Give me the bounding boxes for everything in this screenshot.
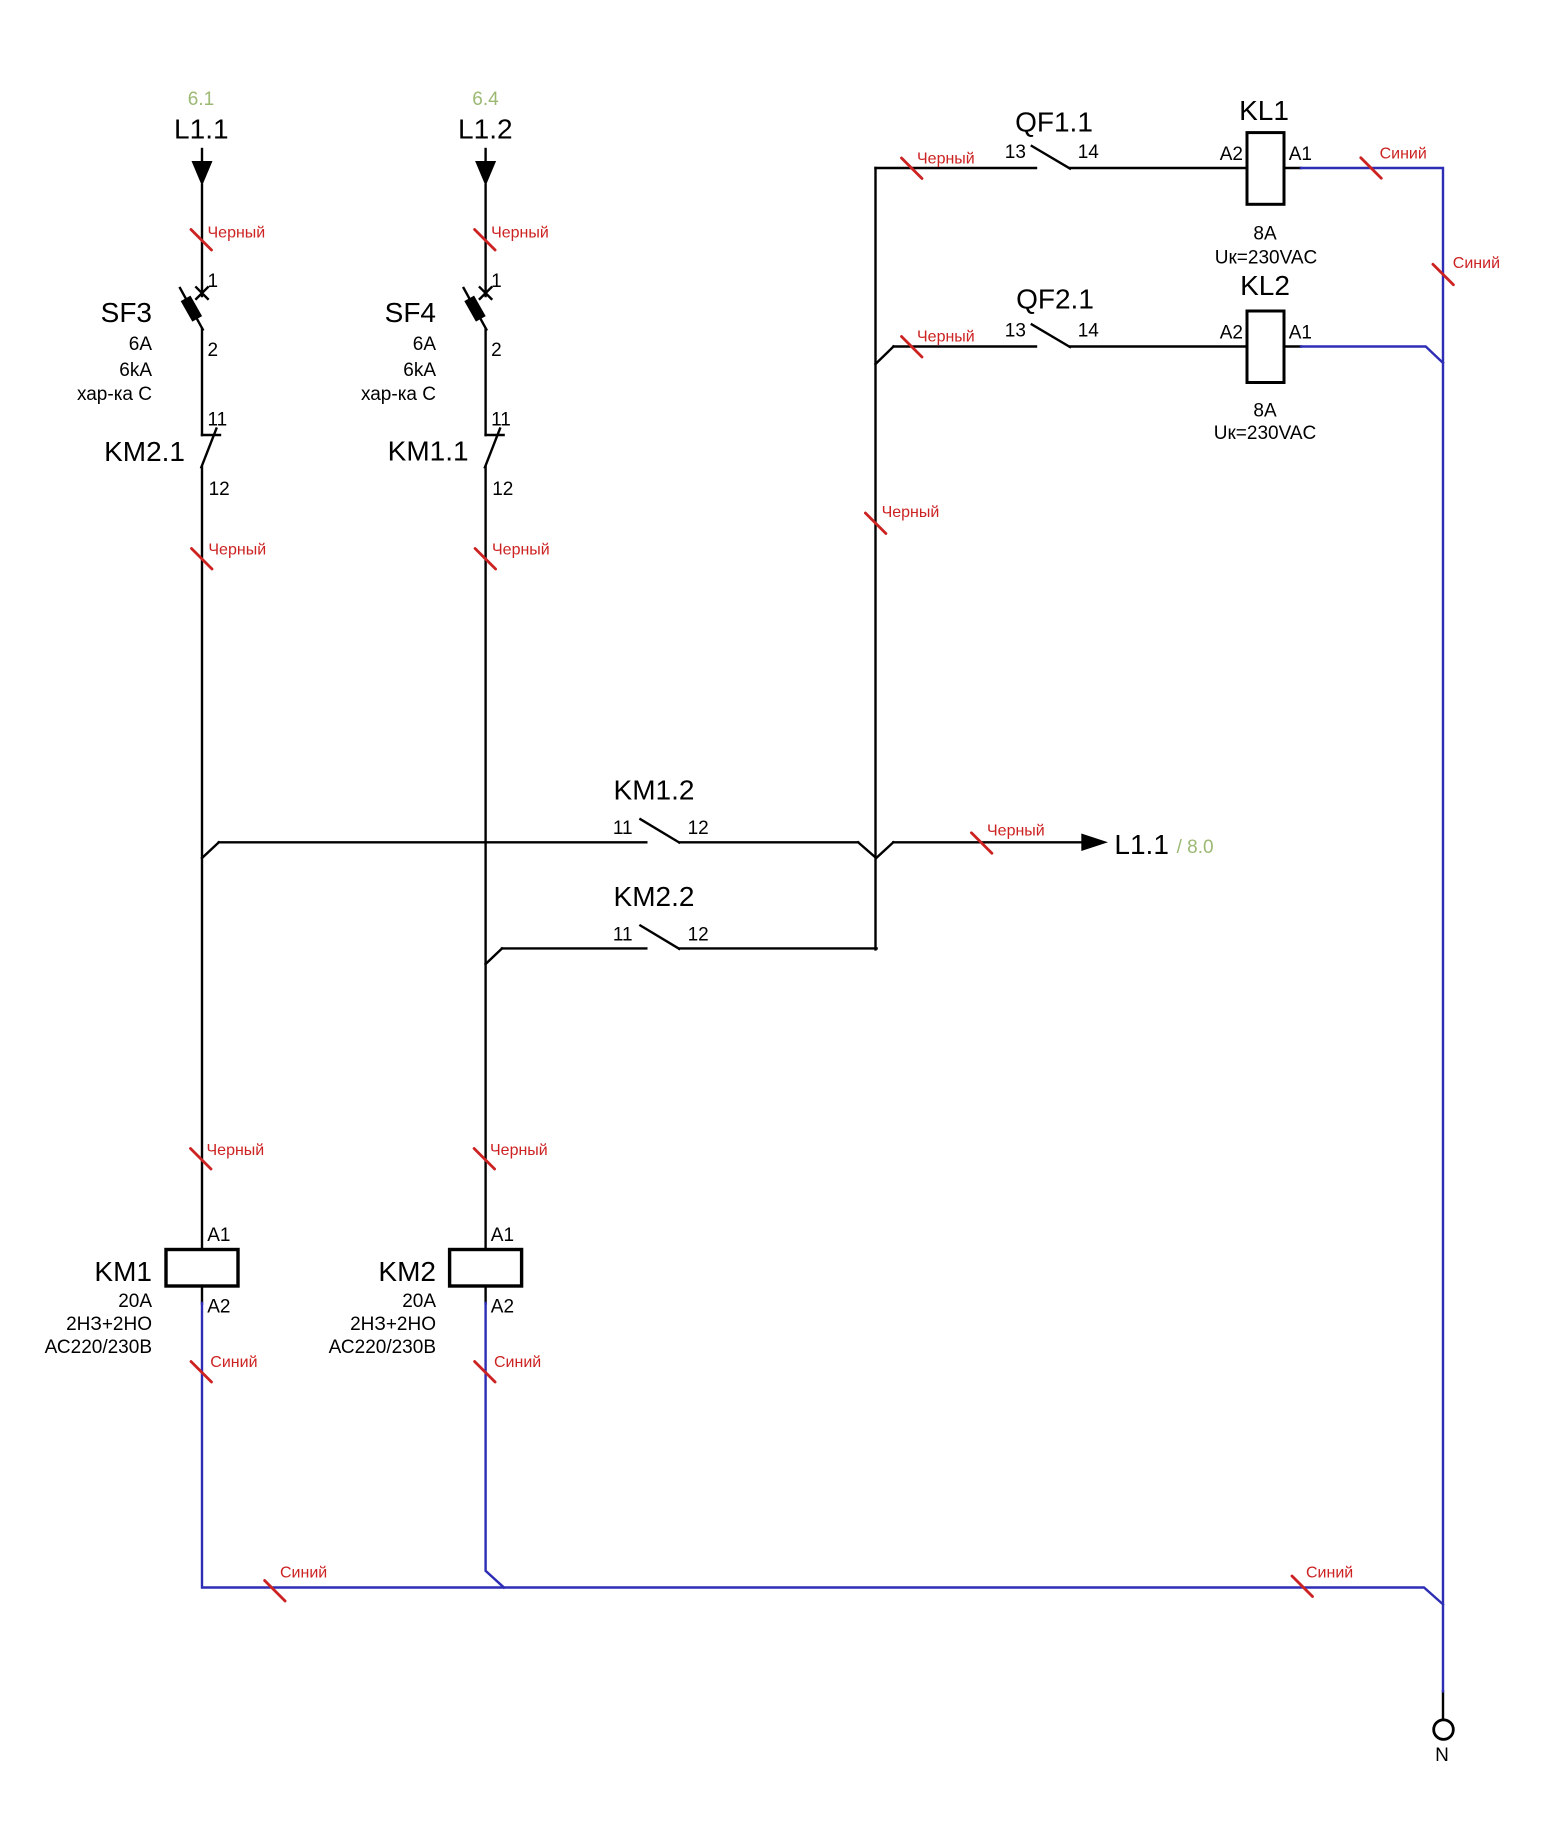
svg-text:2НЗ+2НО: 2НЗ+2НО [66, 1314, 152, 1335]
svg-text:KM1: KM1 [94, 1256, 152, 1287]
svg-text:6kA: 6kA [403, 360, 436, 381]
svg-text:Черный: Черный [917, 151, 975, 168]
svg-text:KM2.2: KM2.2 [614, 881, 695, 912]
svg-text:Uк=230VAC: Uк=230VAC [1215, 248, 1318, 269]
svg-text:11: 11 [208, 410, 228, 431]
svg-text:KL1: KL1 [1239, 95, 1289, 126]
svg-text:11: 11 [613, 818, 633, 839]
svg-text:L1.1: L1.1 [1114, 829, 1169, 860]
svg-text:2НЗ+2НО: 2НЗ+2НО [350, 1314, 436, 1335]
svg-text:Синий: Синий [1306, 1565, 1353, 1582]
svg-text:8A: 8A [1253, 401, 1277, 422]
svg-text:12: 12 [209, 479, 230, 500]
svg-text:Синий: Синий [1380, 146, 1427, 163]
svg-text:A1: A1 [1289, 323, 1312, 344]
svg-text:Черный: Черный [208, 542, 266, 559]
svg-text:A2: A2 [491, 1297, 514, 1318]
svg-text:6.1: 6.1 [188, 89, 214, 110]
svg-text:QF1.1: QF1.1 [1015, 107, 1093, 138]
svg-text:12: 12 [688, 925, 709, 946]
svg-text:L1.1: L1.1 [174, 113, 229, 144]
svg-text:KM2.1: KM2.1 [104, 436, 185, 467]
svg-text:хар-ка C: хар-ка C [77, 384, 152, 405]
svg-text:Uк=230VAC: Uк=230VAC [1214, 423, 1317, 444]
svg-text:A2: A2 [1220, 323, 1243, 344]
svg-text:6kA: 6kA [119, 360, 152, 381]
svg-text:KM2: KM2 [378, 1256, 436, 1287]
svg-text:2: 2 [208, 340, 219, 361]
svg-text:13: 13 [1005, 142, 1026, 163]
svg-text:QF2.1: QF2.1 [1016, 284, 1094, 315]
svg-text:8A: 8A [1253, 224, 1277, 245]
svg-text:14: 14 [1078, 142, 1100, 163]
svg-text:20A: 20A [402, 1291, 436, 1312]
svg-text:KL2: KL2 [1240, 270, 1290, 301]
svg-text:Синий: Синий [280, 1565, 327, 1582]
svg-text:Черный: Черный [987, 823, 1045, 840]
svg-text:/ 8.0: / 8.0 [1177, 837, 1214, 858]
svg-text:20A: 20A [118, 1291, 152, 1312]
svg-text:13: 13 [1005, 321, 1026, 342]
svg-text:Черный: Черный [207, 1142, 265, 1159]
svg-text:Синий: Синий [1453, 255, 1500, 272]
svg-text:Черный: Черный [490, 1142, 548, 1159]
svg-text:Черный: Черный [492, 542, 550, 559]
svg-text:A2: A2 [207, 1297, 230, 1318]
svg-text:KM1.2: KM1.2 [614, 775, 695, 806]
svg-text:12: 12 [688, 818, 709, 839]
svg-text:11: 11 [613, 925, 633, 946]
svg-text:Черный: Черный [882, 504, 940, 521]
svg-text:АС220/230В: АС220/230В [329, 1337, 436, 1358]
svg-text:6A: 6A [129, 334, 153, 355]
svg-text:6A: 6A [413, 334, 437, 355]
svg-text:6.4: 6.4 [472, 89, 499, 110]
svg-text:1: 1 [491, 271, 502, 292]
svg-text:N: N [1435, 1745, 1449, 1766]
svg-text:14: 14 [1078, 321, 1100, 342]
svg-text:хар-ка C: хар-ка C [361, 384, 436, 405]
svg-text:A1: A1 [207, 1225, 230, 1246]
svg-text:Синий: Синий [494, 1354, 541, 1371]
svg-text:АС220/230В: АС220/230В [45, 1337, 152, 1358]
svg-text:Черный: Черный [208, 225, 266, 242]
svg-text:A1: A1 [1289, 144, 1312, 165]
svg-text:SF4: SF4 [385, 297, 436, 328]
svg-text:Черный: Черный [917, 329, 975, 346]
svg-text:12: 12 [492, 479, 513, 500]
svg-text:KM1.1: KM1.1 [388, 436, 469, 467]
svg-text:11: 11 [491, 410, 511, 431]
svg-text:A2: A2 [1220, 144, 1243, 165]
svg-text:L1.2: L1.2 [458, 113, 513, 144]
svg-text:SF3: SF3 [101, 297, 152, 328]
svg-text:Синий: Синий [210, 1354, 257, 1371]
svg-text:Черный: Черный [491, 225, 549, 242]
svg-text:A1: A1 [491, 1225, 514, 1246]
svg-text:2: 2 [491, 340, 502, 361]
svg-text:1: 1 [208, 271, 219, 292]
